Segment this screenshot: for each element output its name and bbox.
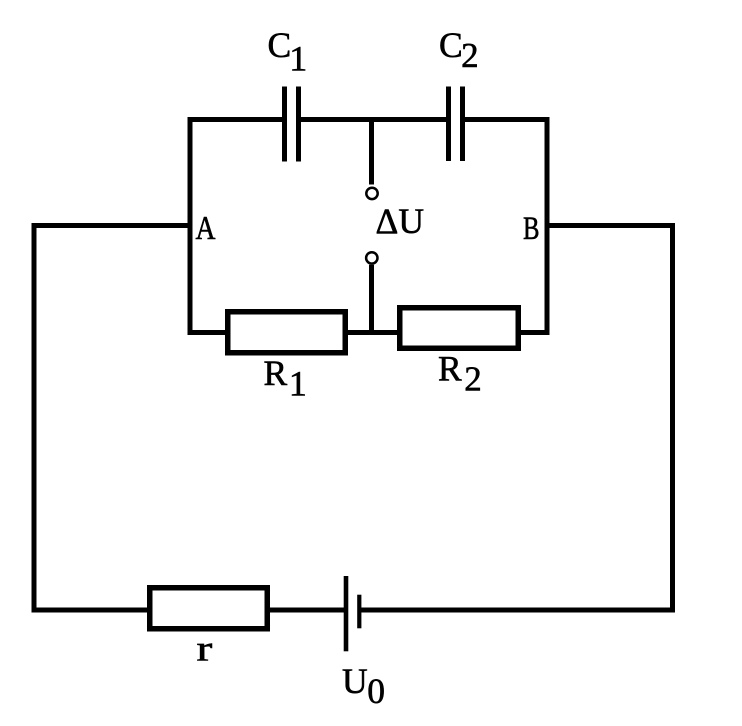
wire bottom-inner-left (to R1) (188, 330, 227, 335)
terminal circle lower (DeltaU probe) (366, 252, 377, 263)
wire bottom-inner-middle (R1 to R2 with junction) (347, 330, 398, 335)
svg-text:U: U (342, 661, 368, 701)
wire inner-left vertical (node A branch) (188, 117, 193, 335)
svg-text:R: R (438, 349, 462, 389)
wire node B horizontal (B to outer-right) (547, 223, 675, 228)
svg-text:R: R (264, 353, 288, 393)
terminal circle upper (DeltaU probe) (366, 188, 377, 199)
label R2 (438, 349, 482, 399)
svg-text:2: 2 (461, 36, 479, 75)
svg-text:C: C (268, 25, 292, 65)
wire bottom-right (battery to outer-right) (361, 608, 675, 613)
label R1 (264, 353, 307, 403)
battery U0 short plate (357, 595, 361, 629)
svg-text:B: B (523, 211, 540, 247)
svg-text:A: A (196, 210, 216, 247)
wire bottom-inner-right (R2 to right vertical) (520, 330, 550, 335)
resistor r (150, 588, 268, 629)
svg-text:1: 1 (289, 38, 307, 78)
label C2 (439, 25, 479, 75)
svg-text:C: C (439, 25, 463, 65)
wire top-left segment (A side to C1) (188, 117, 283, 122)
resistor R1 (228, 312, 346, 353)
wire top-middle segment (C1 to C2) (301, 117, 446, 122)
wire outer-right vertical (670, 223, 675, 613)
svg-text:1: 1 (289, 364, 307, 404)
capacitor C1 (282, 87, 301, 162)
svg-text:ΔU: ΔU (376, 201, 424, 241)
svg-text:0: 0 (367, 671, 385, 711)
node B label (523, 211, 540, 247)
resistor R2 (400, 308, 519, 349)
capacitor C2 (446, 87, 465, 162)
wire node A horizontal (outer-left to A) (32, 223, 191, 228)
wire bottom-left (to resistor r) (32, 608, 149, 613)
svg-text:2: 2 (464, 359, 482, 398)
wire inner-right vertical (node B branch) (545, 117, 550, 335)
battery U0 long plate (344, 576, 349, 651)
wire bottom-middle (r to battery) (269, 608, 344, 613)
label U0 (342, 661, 385, 711)
wire voltmeter stub upper (369, 120, 374, 185)
svg-text:r: r (197, 628, 213, 668)
label r (197, 628, 213, 668)
wire voltmeter stub lower (369, 265, 374, 335)
wire outer-left vertical (32, 223, 37, 613)
label DeltaU (voltmeter reading) (376, 201, 424, 241)
wire top-right segment (C2 to B side) (465, 117, 550, 122)
label C1 (268, 25, 308, 78)
node A label (196, 210, 216, 247)
